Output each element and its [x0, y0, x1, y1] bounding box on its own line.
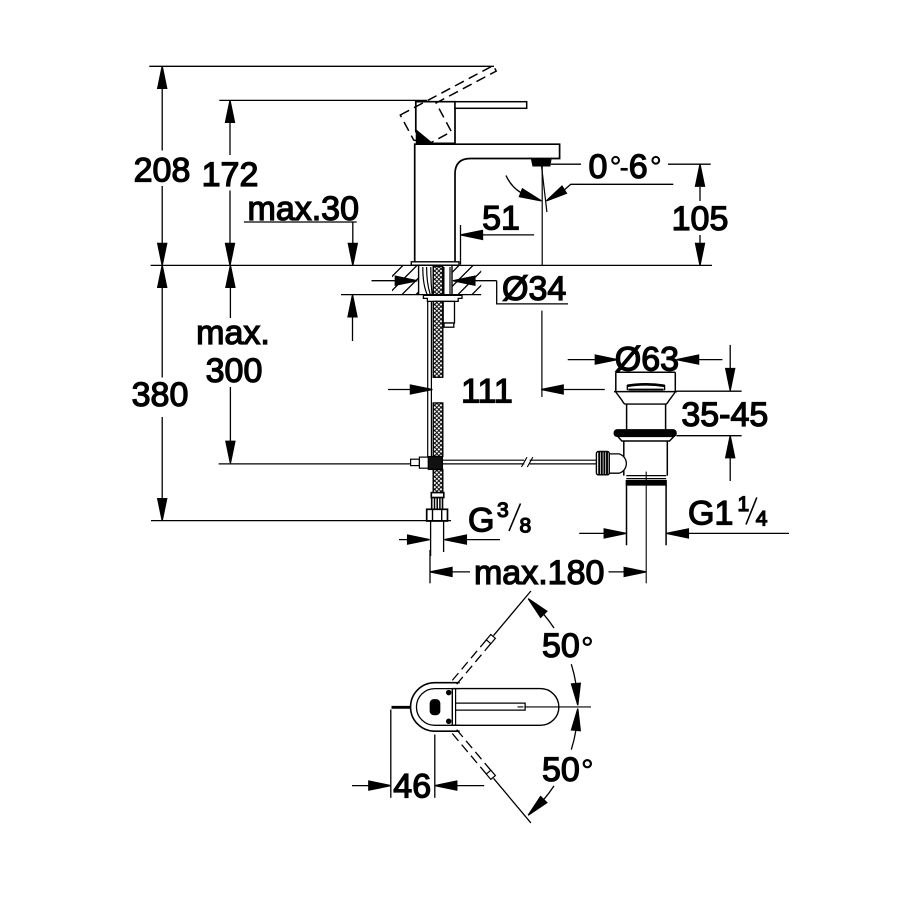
- svg-text:208: 208: [134, 152, 191, 190]
- braided hose segments: [433, 301, 443, 492]
- hole right edge: [451, 266, 453, 295]
- drain upper body: [627, 404, 666, 430]
- svg-text:6: 6: [629, 148, 648, 186]
- drain rod right part: [530, 460, 597, 464]
- dim 35-45 lower vertical: [729, 457, 731, 481]
- dim G1 left arrowhead: [604, 529, 626, 538]
- 0-6 second leader arrowhead: [546, 186, 566, 201]
- 0-6 leader left segment: [551, 163, 581, 165]
- drain taper: [616, 392, 676, 404]
- water stream 6deg line: [542, 166, 547, 212]
- deck top surface line: [151, 264, 712, 266]
- dim 208 down arrowhead: [158, 243, 167, 265]
- right tube in hole: [444, 267, 450, 294]
- lower lever break symbol: [486, 770, 495, 779]
- svg-text:380: 380: [132, 376, 189, 414]
- dim D63 left arrowhead: [595, 355, 617, 364]
- dim 380 down arrowhead: [158, 499, 167, 521]
- dim 35-45 top line: [676, 390, 741, 392]
- drain gasket flange: [618, 436, 674, 441]
- svg-text:Ø63: Ø63: [615, 341, 679, 379]
- hole left edge: [418, 266, 420, 295]
- dim 105 down arrowhead: [696, 243, 705, 265]
- dim 46 left arrowhead: [369, 781, 391, 790]
- dim 46 right arrowhead: [435, 781, 457, 790]
- rod clamp block: [419, 457, 428, 468]
- dim 35-45 bottom line: [676, 435, 741, 437]
- drain push cap: [627, 384, 664, 390]
- dim D34 left leader: [372, 280, 397, 282]
- dim D34 right tail: [475, 280, 497, 282]
- faucet body outline: [415, 144, 560, 262]
- dim 35-45 up arrowhead: [726, 436, 735, 458]
- drain tailpipe: [627, 485, 667, 545]
- svg-text:51: 51: [482, 200, 520, 238]
- dim max180 left arrowhead: [430, 567, 452, 576]
- dim 46 left tail: [352, 785, 369, 787]
- dim 51 extension line: [460, 225, 462, 265]
- dim 46 right tail: [457, 785, 484, 787]
- dim G3/8 left arrowhead: [408, 535, 430, 544]
- max300 level line / rod lower line: [219, 463, 525, 465]
- top view body outer: [411, 683, 460, 732]
- drain gasket: [614, 430, 676, 437]
- lower 50 arc arrowhead at diagonal: [528, 797, 547, 816]
- dim 172 up arrowhead: [226, 100, 235, 122]
- label G1 1/4: [688, 493, 768, 533]
- svg-text:1: 1: [738, 493, 750, 516]
- label 0-6 degrees: [589, 148, 660, 186]
- dim 172 down arrowhead: [226, 243, 235, 265]
- dim 380 line: [161, 287, 163, 498]
- water stream vertical line: [541, 166, 543, 266]
- dim G1 right tail: [688, 532, 789, 534]
- dim 105 vertical line: [699, 187, 701, 243]
- dim max300 up arrowhead: [226, 265, 235, 287]
- lower lever dashed lines: [451, 728, 491, 774]
- max.30 lower vertical line: [352, 317, 354, 341]
- svg-text:111: 111: [461, 373, 513, 411]
- dim D63 right arrowhead: [677, 355, 699, 364]
- svg-text:Ø34: Ø34: [502, 270, 566, 308]
- top view slot end tick: [518, 706, 524, 708]
- label G3/8: [468, 499, 531, 540]
- max.30 leader vertical: [352, 222, 354, 243]
- dim max300 line: [229, 287, 231, 441]
- hose end ferrule: [431, 493, 444, 498]
- rod end cap: [411, 459, 420, 465]
- svg-text:300: 300: [206, 352, 263, 390]
- svg-text:3: 3: [497, 499, 509, 522]
- drain lower body: [624, 441, 668, 476]
- dim max300 down arrowhead: [226, 441, 235, 463]
- dim 111 left tail: [388, 389, 411, 391]
- dim 172 line: [229, 122, 231, 243]
- svg-text:172: 172: [202, 156, 259, 194]
- handle lever bar: [455, 102, 527, 109]
- dim D34 right arrowhead: [453, 276, 475, 285]
- lower 50 arc arrowhead at centerline: [572, 709, 581, 731]
- dim D63 right tail: [698, 359, 722, 361]
- dim D63 left tail: [568, 359, 596, 361]
- top view pull rod tick: [392, 706, 412, 709]
- second hose stub: [443, 301, 454, 327]
- max.30 underline: [244, 221, 357, 223]
- upper lever dashed lines: [451, 640, 491, 686]
- svg-text:35-45: 35-45: [681, 396, 768, 434]
- dim 111 right tail: [563, 389, 605, 391]
- top view screw dot lower: [447, 719, 451, 723]
- faucet base plate: [411, 262, 459, 265]
- 0-6 leader right segment: [668, 163, 711, 165]
- stream angle arc arrowhead: [519, 189, 541, 201]
- upper 50 arc arrowhead at centerline: [572, 683, 581, 705]
- dim 111 left arrowhead: [410, 385, 432, 394]
- dim 35-45 upper vertical: [729, 345, 731, 369]
- dim 46 left extension: [390, 710, 392, 798]
- svg-text:0: 0: [589, 148, 608, 186]
- dim G3/8 right tail: [466, 539, 500, 541]
- G3/8 ribbed section: [432, 498, 443, 510]
- dim D34 left arrowhead: [395, 276, 417, 285]
- handle pivot wedge: [416, 130, 432, 143]
- stream angle arc: [506, 176, 521, 193]
- handle body: [416, 102, 455, 144]
- dim G1 left tail: [579, 532, 604, 534]
- dim 172 reference line: [219, 99, 427, 101]
- drain dark ring: [626, 481, 666, 485]
- dim 208 top reference line: [149, 65, 494, 67]
- dim 51 arrowhead: [461, 230, 483, 239]
- upper lever break symbol: [486, 635, 495, 644]
- top view lever slot: [456, 703, 525, 710]
- dim 208 line: [161, 88, 163, 243]
- stream extension line: [541, 311, 543, 397]
- top view center line: [525, 706, 591, 708]
- dim max180 right line: [609, 571, 625, 573]
- rod break marks: [522, 457, 533, 467]
- dim G3/8 left tail: [399, 539, 408, 541]
- 0-6 second leader: [565, 184, 674, 189]
- dim G1 right arrowhead: [666, 529, 688, 538]
- lower 50 arc segment a: [571, 730, 576, 749]
- dim 208 up arrowhead: [158, 66, 167, 88]
- drain knurled knob: [596, 452, 609, 475]
- pull rod below deck: [428, 301, 432, 456]
- max.30 up arrowhead below deck: [348, 295, 357, 317]
- dim G3/8 right arrowhead: [444, 535, 466, 544]
- G3/8 hex flange: [427, 509, 448, 521]
- dim D34 step: [497, 281, 568, 304]
- pull rod curves in hole: [423, 267, 432, 295]
- top view lever inner edge: [455, 689, 457, 726]
- upper 50 reference line: [494, 591, 531, 636]
- braided hose upper: [433, 266, 443, 294]
- upper 50 arc segment a: [544, 614, 554, 628]
- dim 51 line: [483, 234, 535, 236]
- dim 111 right arrowhead: [541, 385, 563, 394]
- top view body inner: [416, 689, 459, 726]
- drain knob hub: [609, 454, 626, 473]
- svg-text:G1: G1: [688, 495, 733, 533]
- lower 50 arc segment b: [544, 786, 554, 800]
- mounting nut: [423, 295, 462, 301]
- svg-text:50: 50: [542, 627, 580, 665]
- dim max180 right arrowhead: [624, 567, 646, 576]
- svg-text:G: G: [468, 502, 494, 540]
- max180 left extension: [429, 550, 431, 583]
- svg-text:4: 4: [756, 508, 768, 531]
- rod clamp dark block: [428, 457, 442, 470]
- upper 50 arc segment b: [571, 664, 576, 683]
- svg-text:max.: max.: [196, 314, 270, 352]
- 380 bottom reference line: [151, 520, 451, 522]
- svg-text:46: 46: [393, 767, 431, 805]
- deck hatching: [374, 265, 529, 294]
- drain center line: [645, 472, 647, 584]
- upper 50 arc arrowhead at diagonal: [528, 599, 547, 618]
- top view lever outline: [452, 689, 559, 726]
- label 50 upper: [542, 627, 591, 665]
- lower 50 reference line: [494, 778, 531, 823]
- max.30 down arrowhead: [348, 243, 357, 265]
- svg-text:max.180: max.180: [474, 554, 604, 592]
- label 50 lower: [542, 751, 591, 789]
- handle raised position (dashed): [400, 66, 496, 143]
- G3/8 thread tube: [431, 521, 444, 556]
- drain top flange: [616, 372, 676, 392]
- svg-text:8: 8: [520, 515, 532, 538]
- deck section bottom line: [341, 294, 481, 296]
- dim 105 up arrowhead: [696, 164, 705, 186]
- drain rod upper line: [442, 459, 524, 461]
- drain body bottom lines: [626, 476, 666, 479]
- svg-text:105: 105: [672, 200, 729, 238]
- dim 35-45 down arrowhead: [726, 369, 735, 391]
- dim 380 up arrowhead: [158, 265, 167, 287]
- drain flange bottom line: [614, 391, 677, 393]
- dim 46 right extension: [434, 735, 436, 798]
- top view cartridge blob: [430, 700, 439, 715]
- top view screw dot upper: [447, 691, 451, 695]
- dim max180 left line: [452, 571, 470, 573]
- aerator: [531, 158, 551, 166]
- svg-text:50: 50: [542, 751, 580, 789]
